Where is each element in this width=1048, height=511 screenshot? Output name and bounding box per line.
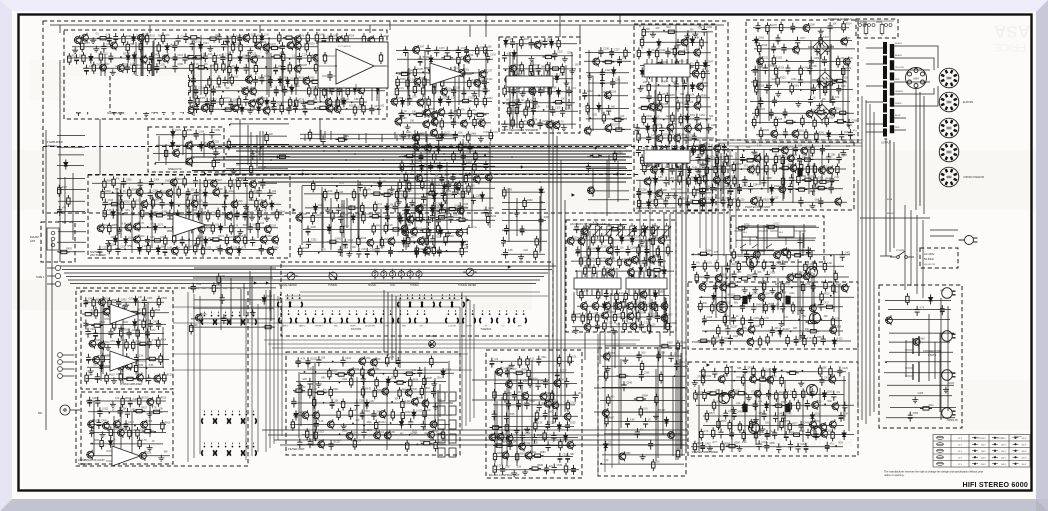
- resistor R396: [426, 192, 438, 195]
- ground G102: [653, 413, 659, 419]
- capacitor C153: [274, 86, 279, 96]
- svg-text:0.022: 0.022: [416, 411, 422, 413]
- ground G21: [396, 199, 402, 205]
- resistor R406: [407, 211, 410, 223]
- svg-text:100u: 100u: [794, 85, 800, 87]
- capacitor C482: [128, 397, 133, 407]
- svg-text:6.8K: 6.8K: [641, 148, 646, 150]
- node N97: [154, 431, 156, 433]
- svg-text:C354: C354: [343, 248, 349, 250]
- svg-text:4.7K: 4.7K: [737, 272, 742, 274]
- resistor R232: [413, 218, 425, 221]
- transistor Q310: [819, 422, 826, 432]
- capacitor C260: [692, 133, 697, 143]
- svg-text:33K: 33K: [620, 116, 625, 118]
- resistor R700: [906, 293, 909, 305]
- svg-text:2.2K: 2.2K: [328, 191, 333, 193]
- resistor R598: [142, 318, 145, 330]
- transistor Q148: [463, 54, 470, 64]
- resistor R250: [520, 62, 523, 74]
- resistor R366: [211, 222, 214, 234]
- svg-text:0.022: 0.022: [405, 401, 411, 403]
- ground G60: [573, 327, 579, 333]
- resistor R303: [643, 163, 646, 175]
- resistor R536: [760, 316, 763, 328]
- resistor R701: [920, 407, 932, 410]
- IC U8 dolby chip B: [644, 150, 690, 163]
- voltage selector option 110V: [939, 68, 959, 88]
- svg-text:2.2K: 2.2K: [369, 401, 374, 403]
- ground G20: [429, 179, 435, 185]
- resistor R107: [232, 34, 235, 46]
- capacitor C408: [732, 271, 737, 281]
- svg-text:Q261: Q261: [654, 256, 660, 258]
- capacitor C274: [790, 23, 795, 33]
- transistor Q335: [405, 388, 412, 398]
- resistor R670: [493, 389, 496, 401]
- resistor R339: [759, 127, 762, 139]
- capacitor C544: [674, 360, 679, 370]
- svg-text:R365: R365: [112, 225, 118, 227]
- resistor R697: [605, 415, 608, 427]
- resistor R558: [780, 375, 783, 387]
- resistor R512: [750, 260, 753, 272]
- svg-text:SIGNAL METER: SIGNAL METER: [279, 284, 297, 287]
- transistor Q182: [536, 75, 543, 85]
- node N82: [830, 295, 832, 297]
- transistor Q170: [415, 204, 422, 214]
- capacitor C141: [268, 76, 273, 86]
- capacitor C525: [504, 413, 509, 423]
- transistor Q249: [366, 238, 373, 248]
- node N98: [91, 443, 93, 445]
- resistor R585: [721, 441, 724, 453]
- svg-text:C268: C268: [641, 190, 647, 192]
- transistor Q164: [478, 118, 485, 128]
- svg-text:R429: R429: [66, 249, 72, 251]
- svg-text:D211: D211: [815, 413, 821, 415]
- ground G94: [341, 423, 347, 429]
- capacitor C415: [751, 303, 756, 313]
- transistor Q289: [786, 273, 793, 283]
- node N2: [268, 38, 270, 40]
- resistor R625: [138, 437, 141, 449]
- svg-text:N93: N93: [839, 443, 844, 445]
- svg-text:100u: 100u: [139, 236, 145, 238]
- resistor R551: [761, 367, 764, 379]
- block boundary dashed line AM group: [88, 174, 640, 176]
- resistor R269: [586, 103, 589, 115]
- resistor R667: [513, 371, 525, 374]
- diode D134: [439, 227, 443, 237]
- svg-text:100u: 100u: [434, 431, 440, 433]
- svg-text:0.01: 0.01: [707, 263, 712, 265]
- resistor R657: [314, 429, 317, 441]
- resistor R487: [800, 162, 803, 174]
- svg-text:33K: 33K: [690, 29, 695, 31]
- capacitor C332: [218, 245, 223, 255]
- svg-text:D204: D204: [752, 294, 758, 296]
- resistor R513: [762, 259, 765, 271]
- ground G72: [798, 380, 804, 386]
- capacitor C306: [243, 177, 248, 187]
- wire rails of AM tuner: [92, 179, 284, 253]
- node N117: [885, 361, 887, 363]
- capacitor C427: [712, 368, 717, 378]
- svg-text:C439: C439: [728, 411, 734, 413]
- svg-text:10K: 10K: [835, 319, 840, 321]
- block outline TOUCH UNIT SSEACTA: [148, 127, 224, 172]
- svg-text:1N60: 1N60: [310, 227, 316, 229]
- resistor R615: [138, 395, 141, 407]
- resistor R569: [788, 400, 791, 412]
- svg-text:R616: R616: [161, 397, 167, 399]
- capacitor C341: [336, 204, 341, 214]
- transistor Q251: [430, 128, 437, 138]
- transistor Q237: [271, 235, 278, 245]
- resistor R601: [125, 339, 128, 351]
- block outline power supply area: [746, 20, 858, 142]
- transistor Q213: [806, 109, 813, 119]
- wire top rail of FM group: [50, 25, 724, 40]
- resistor R707: [262, 325, 274, 328]
- resistor R581: [754, 429, 757, 441]
- capacitor C475: [109, 356, 114, 366]
- svg-text:33K: 33K: [507, 53, 512, 55]
- capacitor C485: [125, 408, 130, 418]
- resistor R705: [212, 282, 215, 294]
- node N17: [351, 102, 353, 104]
- resistor R131: [228, 52, 231, 64]
- label area LOW TUNER: [66, 76, 188, 112]
- svg-text:C553: C553: [913, 413, 919, 415]
- capacitor C214: [520, 225, 525, 235]
- diode D229: [262, 295, 266, 305]
- resistor R483: [756, 164, 759, 176]
- capacitor C524: [492, 410, 497, 420]
- svg-text:BC237: BC237: [269, 44, 277, 46]
- switch row lower group SS7081: [279, 310, 292, 323]
- svg-text:C455: C455: [769, 443, 775, 445]
- resistor R139: [361, 58, 373, 61]
- capacitor C113: [280, 42, 285, 52]
- resistor R224: [400, 160, 403, 172]
- diode D156: [688, 166, 692, 176]
- svg-text:C348: C348: [402, 214, 408, 216]
- transistor Q326: [140, 420, 147, 430]
- ground G89: [158, 455, 164, 461]
- resistor R128: [185, 56, 197, 59]
- transistor Q284: [750, 196, 757, 206]
- svg-text:0.022: 0.022: [356, 215, 362, 217]
- svg-text:N83: N83: [734, 302, 739, 304]
- svg-text:C334: C334: [199, 131, 205, 133]
- svg-text:0.022: 0.022: [487, 79, 493, 81]
- resistor R421: [308, 129, 311, 141]
- svg-text:Q336: Q336: [417, 398, 423, 400]
- svg-text:6.8K: 6.8K: [812, 66, 817, 68]
- capacitor C210: [480, 236, 485, 246]
- node N26: [484, 154, 486, 156]
- svg-text:R523: R523: [785, 283, 791, 285]
- resistor R180: [77, 104, 80, 116]
- resistor R387: [421, 178, 424, 190]
- svg-text:C492: C492: [345, 358, 351, 360]
- svg-text:2.2K: 2.2K: [292, 55, 297, 57]
- resistor R546: [803, 335, 806, 347]
- transistor Q271: [713, 143, 720, 153]
- node N70: [697, 169, 699, 171]
- wire tone-to-amp links: [472, 380, 688, 412]
- ground G54: [389, 186, 395, 192]
- diode D101: [132, 34, 136, 44]
- resistor R278: [655, 48, 658, 60]
- capacitor C520: [506, 400, 511, 410]
- capacitor C123: [246, 52, 251, 62]
- resistor R126: [82, 52, 85, 64]
- diode D147: [703, 60, 707, 70]
- svg-text:C394: C394: [753, 184, 759, 186]
- diode D122: [257, 104, 261, 114]
- resistor R172: [196, 96, 199, 108]
- transistor Q181: [504, 75, 511, 85]
- resistor R160: [121, 85, 124, 97]
- capacitor C540: [571, 465, 576, 475]
- capacitor C196: [437, 162, 442, 172]
- svg-text:D113: D113: [290, 78, 296, 80]
- svg-text:C356: C356: [370, 249, 376, 251]
- ground G97: [524, 426, 530, 432]
- transistor Q166: [424, 143, 431, 153]
- svg-text:C140: C140: [264, 76, 270, 78]
- capacitor C203: [471, 194, 476, 204]
- node N91: [733, 380, 735, 382]
- svg-text:100u: 100u: [532, 379, 538, 381]
- diode D160: [647, 199, 651, 209]
- capacitor C224: [544, 74, 549, 84]
- resistor R516: [823, 261, 826, 273]
- svg-text:C388: C388: [766, 178, 772, 180]
- resistor R706: [190, 323, 193, 335]
- svg-text:1N60: 1N60: [919, 338, 925, 340]
- transistor Q221: [155, 190, 162, 200]
- svg-text:C416: C416: [785, 304, 791, 306]
- transistor Q293: [841, 283, 848, 293]
- svg-text:C443: C443: [786, 413, 792, 415]
- resistor R557: [757, 378, 769, 381]
- ground G50: [264, 215, 270, 221]
- node N92: [824, 403, 826, 405]
- transistor Q107: [367, 35, 374, 45]
- heat sink power transistors amp 1: [742, 296, 747, 304]
- transistor Q231: [133, 222, 140, 232]
- capacitor C329: [97, 246, 102, 256]
- resistor R389: [335, 189, 338, 201]
- resistor R288: [686, 92, 689, 104]
- node N9: [207, 68, 209, 70]
- resistor R468: [666, 320, 669, 332]
- capacitor C174: [445, 47, 450, 57]
- resistor R703: [765, 225, 777, 228]
- transistor Q172: [407, 215, 414, 225]
- resistor R405: [369, 215, 381, 218]
- svg-text:R319: R319: [779, 68, 785, 70]
- resistor R360: [153, 214, 165, 217]
- transistor Q351: [521, 391, 528, 401]
- svg-text:6.8K: 6.8K: [552, 88, 557, 90]
- svg-text:Q240: Q240: [273, 248, 279, 250]
- svg-text:6.8K: 6.8K: [584, 291, 589, 293]
- svg-text:N64: N64: [405, 247, 410, 249]
- svg-text:R373: R373: [218, 236, 224, 238]
- capacitor C231: [531, 105, 536, 115]
- svg-text:2.2K: 2.2K: [816, 86, 821, 88]
- node N4: [356, 47, 358, 49]
- capacitor C166: [272, 103, 277, 113]
- resistor R511: [737, 261, 740, 273]
- transistor Q347: [317, 439, 324, 449]
- capacitor C513: [555, 369, 560, 379]
- resistor R336: [813, 117, 816, 129]
- resistor R693: [607, 394, 610, 406]
- transistor Q288: [715, 273, 722, 283]
- resistor R457: [654, 302, 657, 314]
- diode D127: [440, 131, 444, 141]
- resistor R576: [780, 418, 783, 430]
- svg-text:BC237: BC237: [334, 442, 342, 444]
- resistor R377: [147, 243, 150, 255]
- wire rails of detector: [584, 50, 631, 131]
- capacitor C319: [167, 210, 172, 220]
- capacitor C412: [811, 282, 816, 292]
- resistor R424: [227, 138, 230, 150]
- ground G85: [110, 401, 116, 407]
- capacitor C307: [260, 179, 265, 189]
- svg-text:33K: 33K: [757, 272, 762, 274]
- resistor R416: [357, 235, 360, 247]
- resistor R514: [804, 261, 807, 273]
- svg-text:C466: C466: [153, 321, 159, 323]
- resistor R517: [695, 272, 698, 284]
- svg-text:Q267: Q267: [667, 315, 673, 317]
- capacitor C470: [108, 328, 113, 338]
- block outline AS PRESET UNIT: [566, 220, 676, 332]
- resistor R238: [444, 234, 447, 246]
- capacitor C541: [636, 351, 641, 361]
- capacitor C454: [757, 440, 762, 450]
- svg-text:MPX DECODER SS6000B: MPX DECODER SS6000B: [502, 128, 538, 132]
- svg-text:6.8K: 6.8K: [630, 419, 635, 421]
- svg-text:J-DOOR: J-DOOR: [448, 326, 456, 328]
- resistor R490: [836, 164, 839, 176]
- diode D182: [378, 180, 382, 190]
- capacitor C170: [369, 105, 374, 115]
- resistor R293: [671, 112, 674, 124]
- capacitor C168: [293, 103, 298, 113]
- capacitor C126: [84, 65, 89, 75]
- svg-text:0.01: 0.01: [378, 204, 383, 206]
- capacitor C439: [723, 410, 728, 420]
- resistor R148: [254, 63, 257, 75]
- diode D198: [653, 290, 657, 300]
- capacitor C118: [157, 54, 162, 64]
- svg-text:2.2K: 2.2K: [497, 466, 502, 468]
- svg-text:Q370: Q370: [201, 314, 207, 316]
- transistor Q368: [913, 337, 920, 347]
- relay RL1 coil: [742, 226, 758, 237]
- ground G47: [816, 103, 822, 109]
- node N18: [103, 108, 105, 110]
- svg-text:BC237: BC237: [611, 125, 619, 127]
- capacitor C514: [518, 379, 523, 389]
- wire rails of connector unit fill: [884, 298, 956, 420]
- node N46: [788, 82, 790, 84]
- capacitor C361: [436, 134, 441, 144]
- svg-text:Q333: Q333: [374, 369, 380, 371]
- capacitor C324: [189, 223, 194, 233]
- svg-text:10K: 10K: [606, 114, 611, 116]
- svg-text:1K: 1K: [123, 191, 126, 193]
- node N72: [720, 189, 722, 191]
- ground G52: [237, 229, 243, 235]
- capacitor C162: [243, 96, 248, 106]
- transistor Q362: [525, 451, 532, 461]
- svg-text:C345: C345: [463, 204, 469, 206]
- demodulator box U11: [318, 42, 388, 88]
- diode D192: [643, 226, 647, 236]
- svg-text:10K: 10K: [410, 121, 415, 123]
- diode D170: [196, 210, 200, 220]
- svg-text:R590: R590: [91, 311, 97, 313]
- svg-text:C506: C506: [366, 430, 372, 432]
- resistor R247: [520, 37, 523, 49]
- resistor R235: [427, 227, 430, 239]
- resistor R554: [829, 366, 832, 378]
- ground G10: [110, 102, 116, 108]
- resistor R602: [132, 339, 135, 351]
- transistor Q225: [191, 199, 198, 209]
- ground G73: [746, 395, 752, 401]
- svg-text:1K: 1K: [521, 100, 524, 102]
- svg-text:C242: C242: [587, 91, 593, 93]
- capacitor C499: [330, 399, 335, 409]
- svg-text:R124: R124: [309, 43, 315, 45]
- transistor Q106: [336, 35, 343, 45]
- svg-text:R642: R642: [365, 389, 371, 391]
- resistor R245: [590, 154, 602, 157]
- svg-text:C222: C222: [557, 52, 563, 54]
- svg-text:C178: C178: [490, 55, 496, 57]
- svg-text:R196: R196: [400, 79, 406, 81]
- diode D104: [199, 42, 203, 52]
- resistor R484: [765, 163, 768, 175]
- resistor R141: [133, 62, 136, 74]
- resistor R650: [349, 408, 352, 420]
- capacitor C313: [257, 187, 262, 197]
- capacitor C463: [142, 296, 147, 306]
- capacitor C138: [222, 77, 227, 87]
- diode D173: [113, 235, 117, 245]
- capacitor C235: [538, 119, 543, 129]
- resistor R445: [592, 265, 595, 277]
- capacitor C422: [770, 326, 775, 336]
- capacitor C172: [426, 45, 431, 55]
- svg-text:notice or warning.: notice or warning.: [884, 473, 904, 477]
- wire rails of relay unit fill: [736, 224, 819, 258]
- svg-text:R195: R195: [417, 69, 423, 71]
- resistor R413: [420, 229, 432, 232]
- resistor R422: [336, 138, 348, 141]
